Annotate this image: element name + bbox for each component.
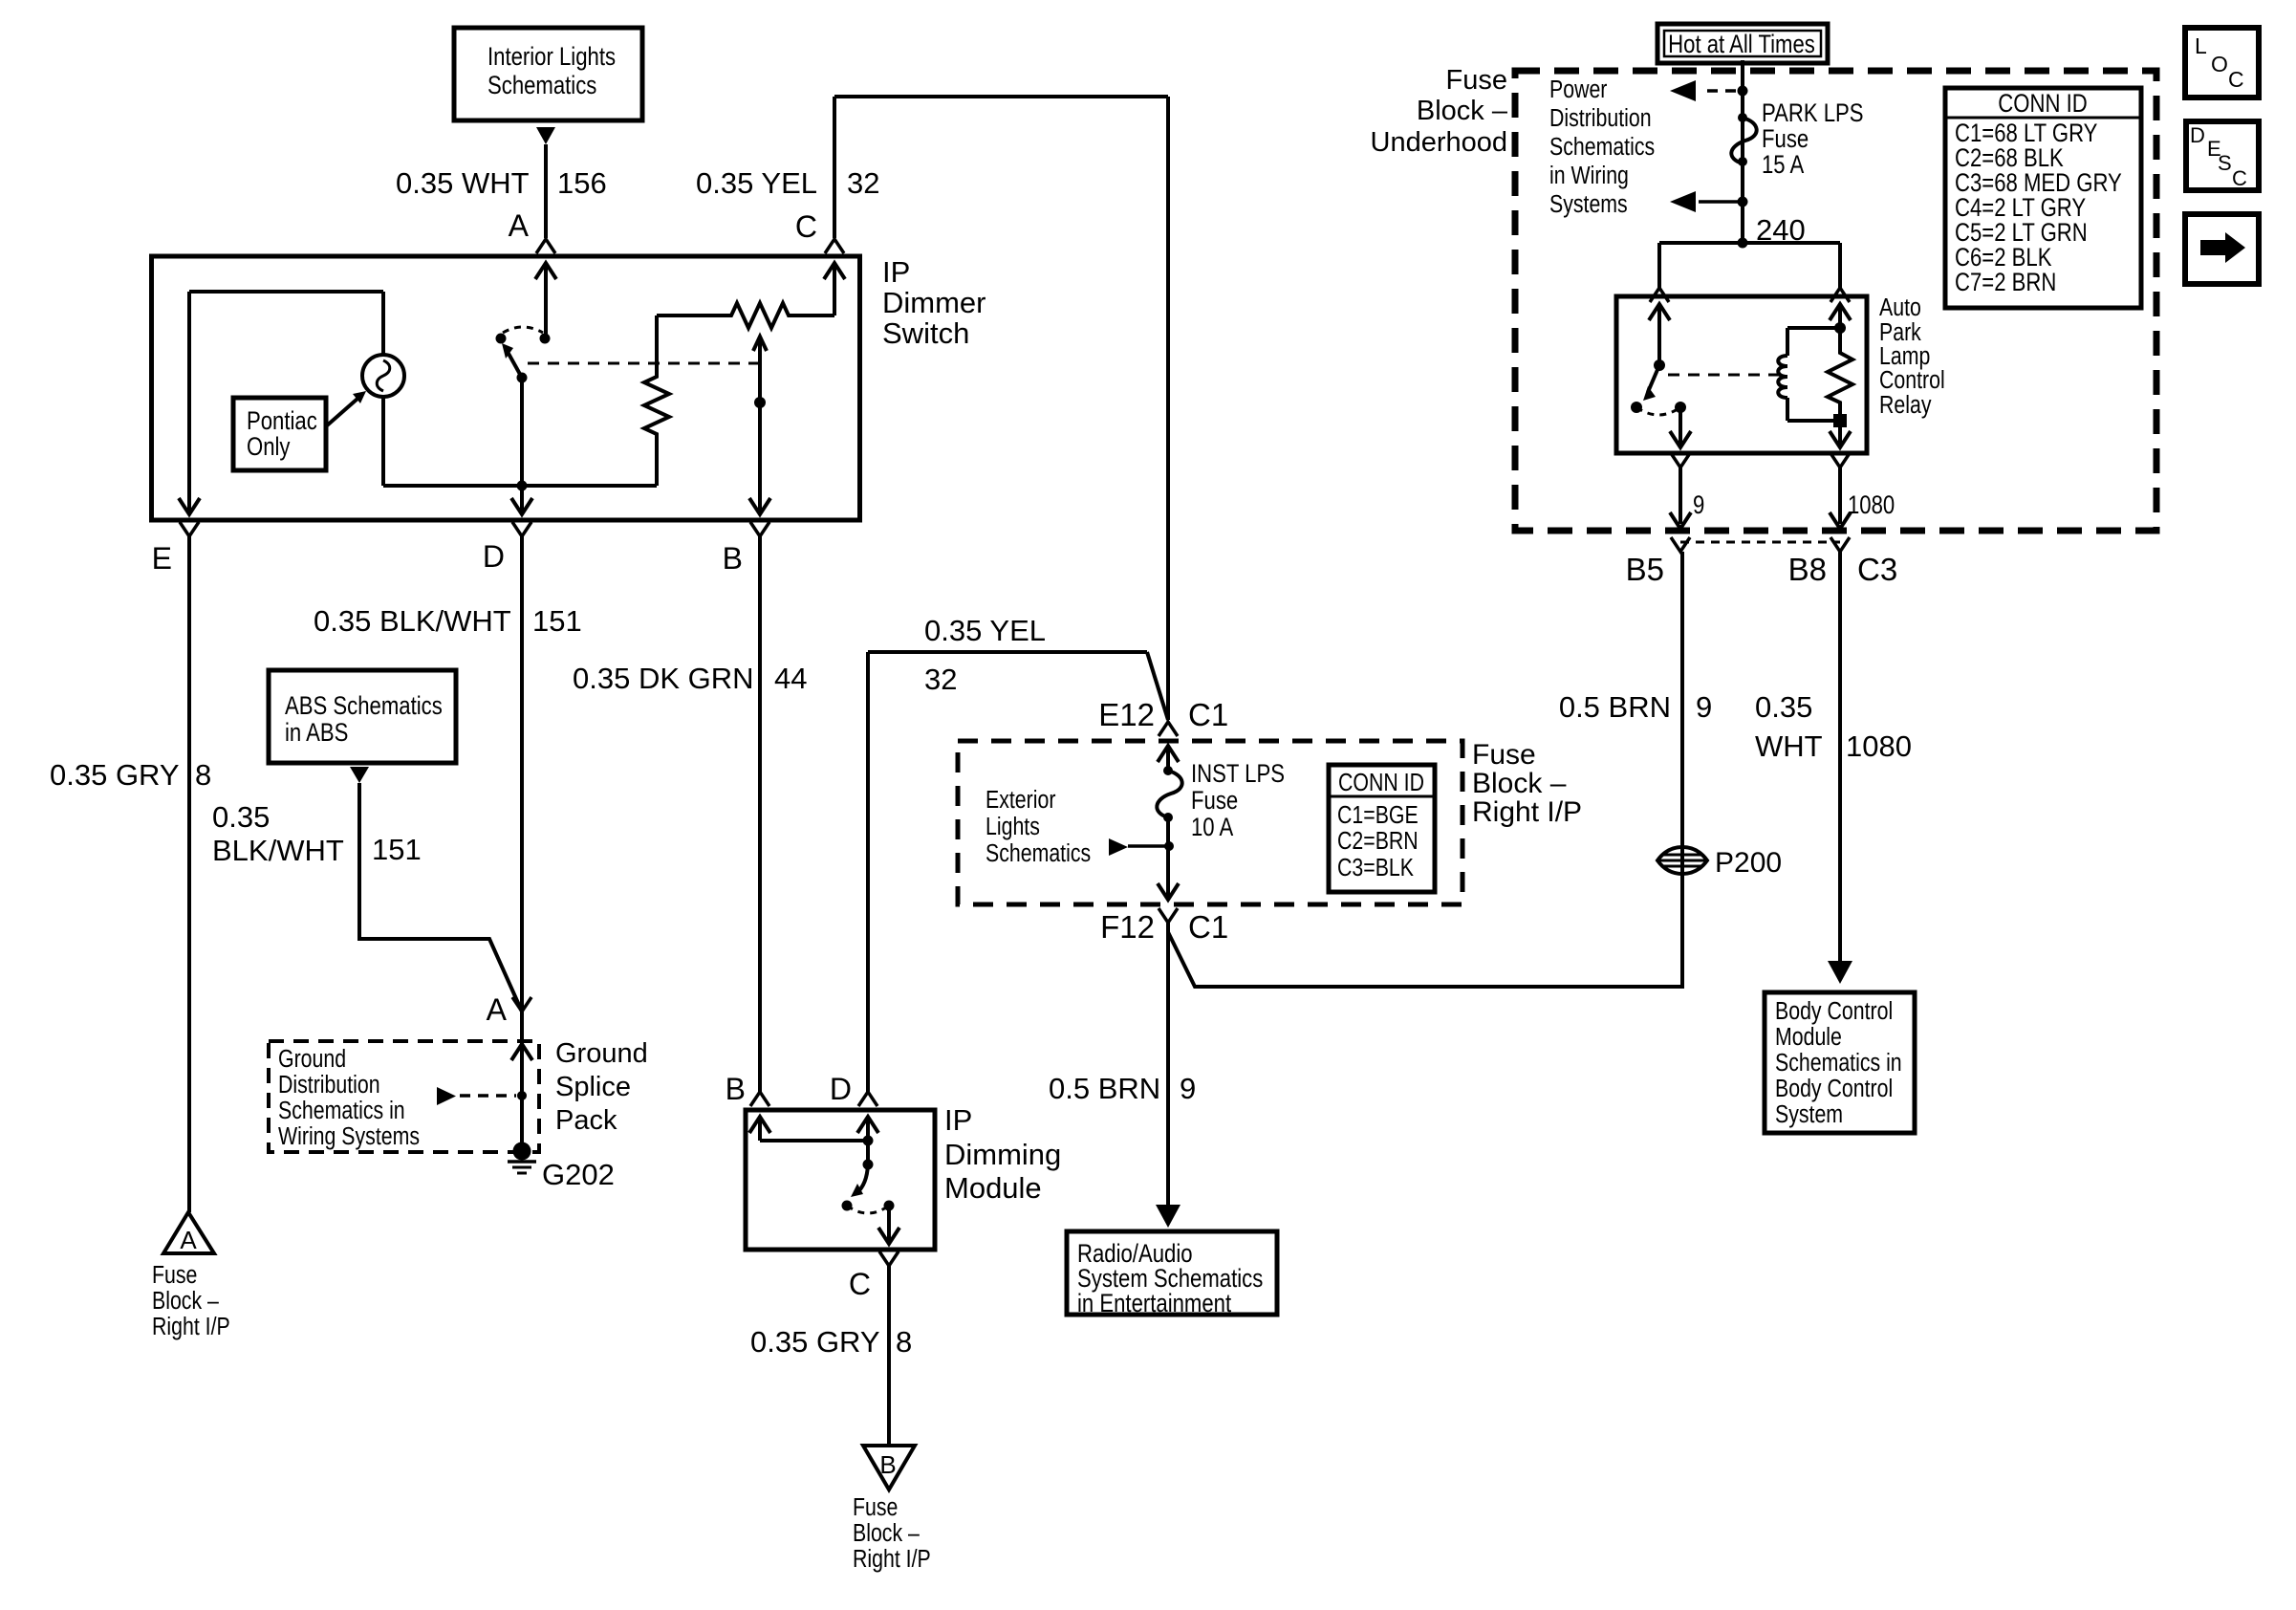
svg-text:Exterior: Exterior (986, 786, 1056, 815)
svg-text:0.35 GRY: 0.35 GRY (50, 758, 180, 792)
svg-text:B8: B8 (1788, 552, 1827, 587)
svg-text:Fuse: Fuse (1446, 65, 1507, 96)
svg-text:Fuse: Fuse (1191, 787, 1238, 816)
svg-text:D: D (2190, 123, 2205, 147)
svg-text:8: 8 (195, 758, 211, 792)
svg-text:Module: Module (1775, 1023, 1842, 1052)
svg-text:Fuse: Fuse (853, 1493, 898, 1522)
svg-text:Right I/P: Right I/P (853, 1545, 931, 1574)
svg-text:Body Control: Body Control (1775, 997, 1893, 1026)
svg-text:D: D (483, 539, 505, 574)
svg-text:C2=BRN: C2=BRN (1337, 827, 1419, 856)
svg-text:0.35: 0.35 (1755, 690, 1812, 724)
svg-text:C3: C3 (1857, 552, 1897, 587)
svg-text:C: C (2228, 67, 2244, 92)
svg-text:IP: IP (944, 1103, 972, 1137)
svg-text:CONN ID: CONN ID (1998, 90, 2087, 119)
svg-text:151: 151 (532, 604, 582, 638)
svg-text:F12: F12 (1100, 909, 1155, 945)
svg-text:10 A: 10 A (1191, 814, 1234, 842)
svg-text:E12: E12 (1098, 697, 1155, 732)
svg-text:9: 9 (1180, 1072, 1196, 1105)
svg-text:9: 9 (1696, 690, 1712, 724)
svg-text:Schematics in: Schematics in (1775, 1049, 1902, 1077)
svg-text:C: C (849, 1267, 871, 1301)
svg-text:32: 32 (924, 663, 957, 696)
svg-text:32: 32 (847, 166, 879, 200)
svg-text:Body Control: Body Control (1775, 1075, 1893, 1103)
svg-text:Right I/P: Right I/P (1472, 796, 1582, 828)
svg-text:8: 8 (896, 1325, 912, 1359)
svg-text:A: A (180, 1226, 197, 1254)
svg-text:ABS Schematics: ABS Schematics (285, 692, 443, 721)
svg-text:Dimmer: Dimmer (882, 286, 986, 319)
svg-text:0.35 GRY: 0.35 GRY (750, 1325, 880, 1359)
svg-text:B5: B5 (1626, 552, 1664, 587)
svg-text:9: 9 (1693, 491, 1704, 520)
svg-text:Ground: Ground (278, 1045, 346, 1074)
svg-text:0.35 WHT: 0.35 WHT (396, 166, 530, 200)
svg-text:A: A (509, 208, 530, 243)
svg-text:Power: Power (1549, 76, 1607, 104)
svg-text:in ABS: in ABS (285, 719, 348, 748)
svg-text:0.35 DK GRN: 0.35 DK GRN (573, 662, 754, 695)
svg-text:C1=BGE: C1=BGE (1337, 801, 1419, 830)
svg-text:G202: G202 (542, 1158, 615, 1191)
svg-text:Wiring Systems: Wiring Systems (278, 1122, 420, 1151)
svg-text:O: O (2211, 52, 2228, 76)
svg-text:Module: Module (944, 1171, 1042, 1205)
svg-text:Dimming: Dimming (944, 1138, 1061, 1171)
svg-text:L: L (2195, 33, 2207, 58)
svg-text:Splice: Splice (555, 1072, 631, 1102)
svg-text:1080: 1080 (1848, 491, 1895, 520)
svg-text:CONN ID: CONN ID (1338, 769, 1424, 797)
svg-text:in Wiring: in Wiring (1549, 162, 1629, 190)
svg-text:C: C (795, 209, 817, 244)
svg-text:0.5 BRN: 0.5 BRN (1559, 690, 1671, 724)
svg-text:44: 44 (774, 662, 807, 695)
svg-text:Pack: Pack (555, 1105, 617, 1136)
svg-text:S: S (2218, 151, 2232, 175)
svg-text:Fuse: Fuse (1472, 739, 1536, 771)
svg-text:P200: P200 (1715, 847, 1782, 879)
svg-text:Block –: Block – (1417, 96, 1508, 126)
svg-text:Switch: Switch (882, 316, 969, 350)
svg-text:WHT: WHT (1755, 729, 1823, 763)
svg-text:Pontiac: Pontiac (247, 407, 317, 436)
svg-text:Schematics: Schematics (986, 839, 1091, 868)
svg-text:Lights: Lights (986, 813, 1040, 841)
svg-text:E: E (152, 541, 172, 576)
svg-text:Distribution: Distribution (278, 1071, 380, 1099)
svg-text:System: System (1775, 1100, 1843, 1129)
svg-text:15 A: 15 A (1762, 151, 1805, 180)
svg-text:Only: Only (247, 433, 291, 462)
svg-text:Distribution: Distribution (1549, 104, 1652, 133)
svg-text:151: 151 (372, 833, 422, 866)
svg-text:Relay: Relay (1879, 391, 1932, 420)
svg-text:Fuse: Fuse (152, 1261, 197, 1290)
svg-text:Block –: Block – (1472, 768, 1567, 799)
svg-text:0.35: 0.35 (212, 800, 270, 834)
svg-text:C3=BLK: C3=BLK (1337, 854, 1414, 882)
svg-text:Schematics: Schematics (487, 72, 596, 100)
svg-text:IP: IP (882, 255, 910, 289)
svg-text:C1: C1 (1188, 909, 1228, 945)
svg-text:Schematics in: Schematics in (278, 1097, 405, 1125)
svg-text:INST LPS: INST LPS (1191, 760, 1285, 789)
svg-text:D: D (830, 1072, 852, 1106)
svg-text:C7=2 BRN: C7=2 BRN (1955, 269, 2056, 297)
svg-text:Interior Lights: Interior Lights (487, 43, 616, 72)
svg-text:1080: 1080 (1846, 729, 1912, 763)
svg-text:0.35 YEL: 0.35 YEL (924, 614, 1046, 647)
svg-text:PARK LPS: PARK LPS (1762, 99, 1864, 128)
svg-text:B: B (726, 1072, 746, 1106)
svg-text:A: A (487, 992, 508, 1027)
svg-text:B: B (723, 541, 743, 576)
svg-text:C: C (2232, 166, 2247, 190)
svg-text:Hot at All Times: Hot at All Times (1668, 31, 1815, 59)
svg-text:BLK/WHT: BLK/WHT (212, 834, 344, 867)
svg-text:0.5 BRN: 0.5 BRN (1049, 1072, 1160, 1105)
svg-text:Underhood: Underhood (1371, 127, 1508, 158)
svg-text:Fuse: Fuse (1762, 125, 1809, 154)
svg-text:B: B (879, 1450, 896, 1479)
svg-text:0.35 BLK/WHT: 0.35 BLK/WHT (314, 604, 511, 638)
svg-text:Schematics: Schematics (1549, 133, 1655, 162)
svg-text:C1: C1 (1188, 697, 1228, 732)
svg-text:Block –: Block – (853, 1519, 921, 1548)
svg-text:Block –: Block – (152, 1287, 220, 1316)
svg-text:Ground: Ground (555, 1038, 648, 1069)
svg-text:Right I/P: Right I/P (152, 1313, 230, 1341)
svg-text:in Entertainment: in Entertainment (1077, 1290, 1231, 1318)
svg-text:0.35 YEL: 0.35 YEL (696, 166, 817, 200)
svg-text:156: 156 (557, 166, 607, 200)
svg-text:Systems: Systems (1549, 190, 1628, 219)
